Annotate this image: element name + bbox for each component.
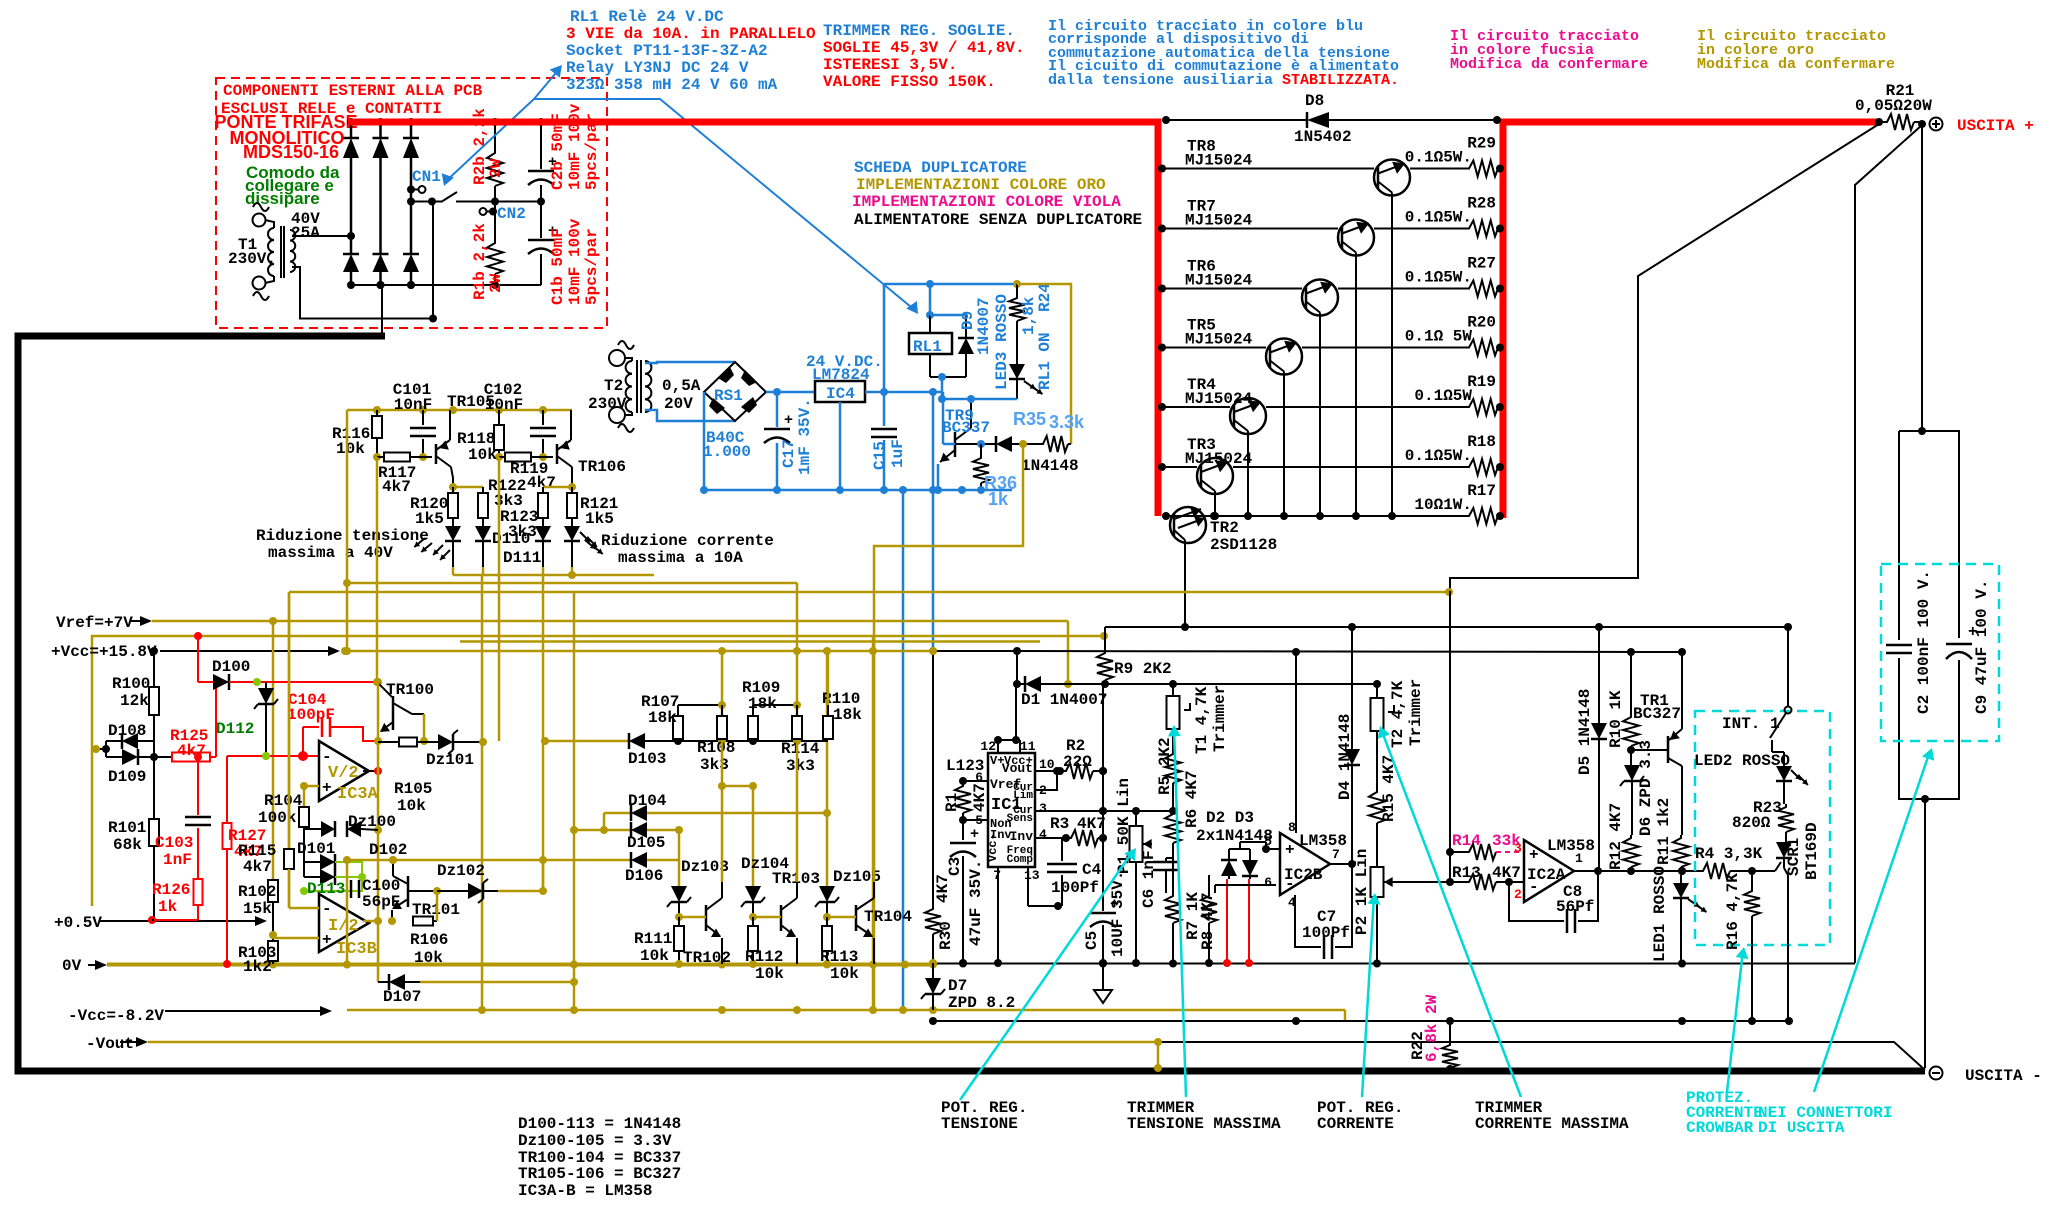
resistor R6 bbox=[1165, 770, 1201, 858]
resistor R1 bbox=[943, 783, 989, 824]
svg-text:Trimmer: Trimmer bbox=[1407, 679, 1425, 746]
diode 1N4148 dup bbox=[996, 436, 1079, 475]
svg-text:D8: D8 bbox=[1305, 92, 1324, 110]
label NEI CONNETTORI DI USCITA bbox=[1758, 1104, 1892, 1137]
diode D101 bbox=[297, 829, 335, 870]
bridge diode top 2 bbox=[373, 118, 389, 254]
svg-text:1nF: 1nF bbox=[163, 851, 192, 869]
svg-text:V/2: V/2 bbox=[328, 764, 359, 783]
svg-text:10k: 10k bbox=[830, 965, 859, 983]
svg-text:D112: D112 bbox=[216, 720, 254, 738]
wire RL1 top bus bbox=[884, 283, 1017, 286]
svg-text:10k: 10k bbox=[640, 947, 669, 965]
diode D9 bbox=[930, 297, 993, 377]
label Vref bbox=[56, 614, 152, 632]
transistor TR2 2SD1128 bbox=[1170, 507, 1277, 627]
resistor R112 bbox=[745, 917, 784, 983]
terminal USCITA+ bbox=[1930, 117, 2034, 135]
svg-text:1k: 1k bbox=[158, 898, 178, 916]
svg-text:Vout: Vout bbox=[1002, 761, 1033, 776]
svg-text:LM7824: LM7824 bbox=[812, 366, 870, 384]
wire -Vcc bus bbox=[347, 1006, 1345, 1021]
opamp IC2A bbox=[1524, 837, 1595, 902]
diode D108 bbox=[106, 722, 154, 749]
zener Dz104 bbox=[718, 782, 789, 921]
resistor R15 bbox=[1369, 731, 1398, 867]
svg-text:IMPLEMENTAZIONI COLORE VIOLA: IMPLEMENTAZIONI COLORE VIOLA bbox=[852, 193, 1121, 211]
label Comodo da collegare e dissipare bbox=[245, 163, 340, 208]
svg-text:Relay LY3NJ DC 24 V: Relay LY3NJ DC 24 V bbox=[566, 59, 749, 77]
resistor R117 bbox=[373, 453, 432, 497]
wire IC3B plus bbox=[273, 937, 319, 940]
wire lower black bus bbox=[929, 1017, 1793, 1025]
svg-text:Comp: Comp bbox=[1007, 854, 1034, 866]
transistor TR102 bbox=[679, 882, 731, 967]
svg-text:Trimmer: Trimmer bbox=[1211, 685, 1229, 752]
trimmer T2 bbox=[1371, 679, 1426, 748]
opamp IC3A bbox=[319, 741, 379, 804]
diode D106 bbox=[543, 830, 679, 885]
resistor R111 bbox=[634, 917, 684, 968]
transistor TR104 bbox=[827, 882, 912, 964]
wire IC1 pin10 bbox=[1035, 767, 1064, 775]
wire R21 sense left bbox=[1450, 124, 1879, 591]
opamp IC3B bbox=[319, 894, 377, 959]
svg-text:+: + bbox=[970, 826, 979, 843]
crowbar dashed box bbox=[1695, 711, 1830, 945]
resistor R30 bbox=[925, 874, 955, 967]
IC1 pin numbers bbox=[975, 739, 1055, 883]
transistor TR101 bbox=[388, 856, 460, 925]
wire IC1 pin3 bbox=[1035, 807, 1177, 815]
resistor R2b bbox=[487, 118, 503, 202]
svg-text:C15: C15 bbox=[871, 441, 889, 470]
trimmer T1 bbox=[1167, 684, 1230, 754]
transistor TR106 BC327 bbox=[557, 410, 626, 491]
label 40V 25A bbox=[291, 210, 320, 242]
resistor R115 bbox=[238, 592, 294, 908]
wire D2D3 top bbox=[1229, 842, 1270, 853]
svg-text:IC3B: IC3B bbox=[336, 940, 377, 959]
label POT REG CORRENTE bbox=[1317, 1099, 1403, 1133]
wire minus input red bbox=[227, 751, 319, 761]
wire gold y641 bus bbox=[460, 640, 1040, 643]
svg-text:RS1: RS1 bbox=[714, 387, 743, 405]
wire bridge bottom bus bbox=[351, 281, 541, 289]
svg-text:1mF 35V.: 1mF 35V. bbox=[796, 398, 814, 475]
diode D100 bbox=[198, 658, 257, 690]
transformer T2 bbox=[609, 341, 651, 432]
label R24 1,8k bbox=[1020, 283, 1054, 335]
svg-text:1N5402: 1N5402 bbox=[1294, 128, 1352, 146]
svg-text:0V: 0V bbox=[62, 957, 82, 975]
label D2 D3 bbox=[1196, 809, 1273, 845]
svg-text:56Pf: 56Pf bbox=[1556, 898, 1594, 916]
svg-text:+: + bbox=[784, 412, 793, 429]
resistor R7 bbox=[1165, 858, 1202, 963]
transistor TR105 BC327 bbox=[436, 410, 457, 491]
label SCHEDA DUPLICATORE bbox=[852, 159, 1142, 229]
svg-text:MJ15024: MJ15024 bbox=[1185, 212, 1253, 230]
resistor R20 bbox=[1405, 314, 1504, 356]
svg-text:P2 1K Lin: P2 1K Lin bbox=[1353, 849, 1371, 935]
transistor TR3 MJ15024 bbox=[1158, 436, 1466, 520]
svg-text:SOGLIE 45,3V / 41,8V.: SOGLIE 45,3V / 41,8V. bbox=[823, 39, 1025, 57]
svg-text:TR106: TR106 bbox=[578, 458, 626, 476]
svg-text:0,05Ω20W: 0,05Ω20W bbox=[1855, 97, 1932, 115]
svg-text:RL1: RL1 bbox=[913, 338, 942, 356]
label T2 secondary bbox=[662, 377, 701, 413]
arrow to P2 bbox=[1362, 893, 1380, 1097]
svg-text:R3: R3 bbox=[1050, 815, 1069, 833]
resistor R16 bbox=[1724, 871, 1760, 1021]
resistor R101 bbox=[108, 757, 159, 920]
label T1 230V bbox=[228, 236, 276, 268]
wire IC1 top pins bbox=[994, 684, 1020, 753]
wire blue verticals down bbox=[884, 284, 937, 1010]
label COMPONENTI ESTERNI bbox=[221, 82, 483, 118]
svg-text:+: + bbox=[1285, 841, 1295, 859]
svg-text:D108: D108 bbox=[108, 722, 146, 740]
svg-text:1k: 1k bbox=[988, 489, 1009, 509]
transformer T1 bbox=[253, 203, 434, 319]
svg-text:18k: 18k bbox=[748, 695, 777, 713]
label R2b 2,2k 2W bbox=[471, 108, 505, 185]
svg-text:-: - bbox=[322, 900, 332, 918]
svg-text:TENSIONE MASSIMA: TENSIONE MASSIMA bbox=[1127, 1115, 1281, 1133]
wire gold R35 down bbox=[874, 444, 1023, 1010]
svg-text:IC4: IC4 bbox=[826, 385, 855, 403]
wire R17 row bbox=[1162, 512, 1466, 520]
wire D7 branch bbox=[929, 647, 937, 906]
svg-text:massima a 40V: massima a 40V bbox=[268, 544, 393, 562]
wire +Vcc black east bbox=[933, 647, 1686, 833]
svg-text:6,8k 2W: 6,8k 2W bbox=[1423, 994, 1441, 1062]
label Il circuito blu bbox=[1048, 18, 1399, 89]
svg-text:10k: 10k bbox=[414, 949, 443, 967]
svg-text:COMPONENTI ESTERNI ALLA PCB: COMPONENTI ESTERNI ALLA PCB bbox=[223, 82, 483, 100]
wire D113 green bbox=[300, 862, 366, 898]
svg-text:R112: R112 bbox=[745, 948, 783, 966]
svg-text:4K7: 4K7 bbox=[934, 874, 952, 903]
wire USCITA+ down bbox=[1921, 125, 1923, 431]
connector CN2 bbox=[480, 205, 526, 223]
label C101 10nF bbox=[393, 381, 432, 414]
svg-text:+0.5V: +0.5V bbox=[54, 914, 102, 932]
svg-text:INT. 1: INT. 1 bbox=[1722, 715, 1780, 733]
capacitor C100 bbox=[351, 877, 400, 911]
wire led bottom bus bbox=[453, 567, 654, 579]
capacitor C15 bbox=[871, 392, 897, 494]
svg-text:R13: R13 bbox=[1452, 864, 1481, 882]
capacitor C3 bbox=[946, 820, 985, 967]
svg-text:0.1Ω5W.: 0.1Ω5W. bbox=[1405, 209, 1472, 227]
svg-text:D100: D100 bbox=[212, 658, 250, 676]
svg-text:1k5: 1k5 bbox=[585, 510, 614, 528]
label Riduzione corrente bbox=[585, 532, 774, 567]
svg-text:8: 8 bbox=[1288, 820, 1296, 835]
wire gold TR105 top bus bbox=[347, 406, 572, 414]
wire duplicator bus bbox=[704, 486, 1012, 494]
svg-text:D1 1N4007: D1 1N4007 bbox=[1021, 691, 1107, 709]
resistor R103 bbox=[238, 902, 278, 976]
capacitor C1b bbox=[528, 202, 557, 286]
wire R9 right vertical bbox=[1099, 684, 1107, 911]
resistor R104 bbox=[258, 786, 309, 829]
svg-text:Vref=+7V: Vref=+7V bbox=[56, 614, 133, 632]
svg-text:D5 1N4148: D5 1N4148 bbox=[1576, 689, 1594, 775]
svg-text:SCHEDA DUPLICATORE: SCHEDA DUPLICATORE bbox=[854, 159, 1027, 177]
svg-text:10k: 10k bbox=[397, 797, 426, 815]
zener pair Dz100 bbox=[304, 813, 396, 837]
svg-text:BC337: BC337 bbox=[942, 419, 990, 437]
svg-text:20V: 20V bbox=[664, 395, 693, 413]
svg-text:D106: D106 bbox=[625, 867, 663, 885]
transistor TR103 bbox=[753, 870, 820, 964]
bridge diode bottom 1 bbox=[343, 254, 359, 289]
svg-text:IC2A: IC2A bbox=[1527, 866, 1566, 884]
svg-text:RL1 Relè 24 V.DC: RL1 Relè 24 V.DC bbox=[570, 8, 724, 26]
wire RS1 plus bbox=[766, 388, 815, 396]
svg-text:Dz101: Dz101 bbox=[426, 751, 474, 769]
wire IC3B minus bbox=[289, 907, 319, 910]
svg-text:4k7: 4k7 bbox=[527, 474, 556, 492]
wire R110 top bbox=[827, 651, 830, 705]
arrow to crowbar box bbox=[1727, 947, 1748, 1092]
label C102 10nF bbox=[484, 381, 523, 414]
transistor TR8 MJ15024 bbox=[1158, 138, 1466, 521]
wire IC1 pin5 bbox=[963, 819, 988, 821]
wire main +V red bus bbox=[348, 122, 1879, 518]
resistor R102 bbox=[238, 880, 278, 918]
resistor R119 bbox=[499, 453, 556, 493]
svg-text:R126: R126 bbox=[152, 881, 190, 899]
svg-text:4: 4 bbox=[1039, 827, 1047, 842]
resistor R107 bbox=[641, 693, 726, 739]
svg-text:3: 3 bbox=[1039, 801, 1047, 816]
svg-text:R106: R106 bbox=[410, 931, 448, 949]
svg-text:T2 4,7K: T2 4,7K bbox=[1389, 680, 1407, 748]
svg-text:47uF 35V.: 47uF 35V. bbox=[967, 860, 985, 946]
arrow to caps box bbox=[1814, 748, 1934, 1092]
resistor R8 bbox=[1199, 875, 1217, 967]
transistor TR7 MJ15024 bbox=[1158, 198, 1466, 521]
resistor R22 bbox=[1409, 994, 1458, 1073]
crowbar caps dashed box bbox=[1881, 564, 1999, 741]
diode D8 bbox=[1162, 92, 1501, 146]
rectifier RS1 bbox=[704, 362, 766, 421]
wire red vertical bbox=[194, 632, 216, 757]
LED2 bbox=[1694, 740, 1808, 804]
svg-text:R113: R113 bbox=[820, 948, 858, 966]
resistor R21 bbox=[1855, 82, 1932, 130]
svg-text:2W: 2W bbox=[487, 273, 505, 293]
zener D6 bbox=[1620, 740, 1655, 836]
svg-text:Modifica da confermare: Modifica da confermare bbox=[1697, 56, 1895, 73]
wire IC1 pin4 bbox=[1035, 834, 1070, 842]
wire TR102 coll gold bbox=[721, 741, 724, 882]
wire collector bus 627 bbox=[1105, 623, 1792, 631]
LED D111 bbox=[564, 526, 597, 567]
svg-text:MJ15024: MJ15024 bbox=[1185, 331, 1253, 349]
diode D105 bbox=[570, 813, 683, 852]
label C1b bbox=[549, 218, 601, 305]
zener Dz101 bbox=[424, 730, 487, 769]
resistor R18 bbox=[1405, 433, 1504, 475]
resistor R121 bbox=[567, 487, 618, 528]
svg-text:IC3A-B = LM358: IC3A-B = LM358 bbox=[518, 1182, 652, 1200]
resistor R118 bbox=[457, 410, 504, 464]
svg-text:10k: 10k bbox=[468, 446, 497, 464]
diode D3 bbox=[1242, 849, 1258, 879]
svg-text:R1: R1 bbox=[943, 793, 961, 812]
diode D104 bbox=[604, 792, 831, 821]
svg-text:5: 5 bbox=[1264, 834, 1272, 849]
svg-text:4K7: 4K7 bbox=[971, 783, 989, 812]
svg-text:D6 ZPD 3.3: D6 ZPD 3.3 bbox=[1637, 740, 1655, 836]
label C15 1uF bbox=[871, 439, 907, 470]
wire +Vcc bus bbox=[341, 647, 937, 655]
svg-text:D7: D7 bbox=[948, 977, 967, 995]
svg-text:LED2 ROSSO: LED2 ROSSO bbox=[1694, 752, 1790, 770]
resistor R125 red bbox=[154, 727, 216, 762]
label Il circuito oro bbox=[1697, 28, 1895, 73]
svg-text:C5: C5 bbox=[1083, 931, 1101, 950]
svg-text:C4: C4 bbox=[1082, 861, 1102, 879]
svg-text:R4 3,3K: R4 3,3K bbox=[1695, 845, 1763, 863]
transistor TR1 BC327 bbox=[1631, 655, 1682, 835]
svg-text:0.1Ω5W: 0.1Ω5W bbox=[1414, 387, 1472, 405]
wire LED3 to TR9 node bbox=[938, 395, 1017, 403]
svg-text:C1b 50mF: C1b 50mF bbox=[549, 228, 567, 305]
label T2 230V bbox=[588, 377, 627, 413]
zener Dz102 bbox=[437, 862, 547, 903]
resistor R106 bbox=[410, 891, 448, 967]
svg-text:C2 100nF 100 V.: C2 100nF 100 V. bbox=[1915, 570, 1933, 714]
wire -sense diagonal bbox=[1158, 1042, 1925, 1070]
ground symbol bbox=[1094, 963, 1112, 1003]
svg-text:100pF: 100pF bbox=[287, 706, 335, 724]
svg-text:100Pf: 100Pf bbox=[1051, 879, 1099, 897]
wire bridge minus drop bbox=[347, 232, 382, 336]
svg-text:RL1 ON: RL1 ON bbox=[1036, 332, 1054, 390]
wire IC1 pin6 bbox=[959, 777, 988, 785]
svg-text:BT169D: BT169D bbox=[1803, 822, 1821, 880]
svg-text:6: 6 bbox=[1264, 875, 1272, 890]
svg-text:+: + bbox=[1529, 846, 1539, 864]
svg-text:1: 1 bbox=[1575, 851, 1583, 866]
wire Dz103 top bbox=[678, 860, 681, 886]
legend component list bbox=[518, 1115, 681, 1200]
diode D4 bbox=[1336, 627, 1360, 864]
svg-text:100Pf: 100Pf bbox=[1302, 924, 1350, 942]
svg-text:323Ω 358 mH 24 V 60 mA: 323Ω 358 mH 24 V 60 mA bbox=[566, 76, 778, 94]
wire IC2B pin5 bbox=[1266, 842, 1280, 849]
capacitor C5 bbox=[1083, 871, 1127, 967]
relay RL1 coil bbox=[909, 280, 966, 399]
svg-text:CN2: CN2 bbox=[497, 205, 526, 223]
resistor R120 bbox=[410, 487, 458, 528]
diode D5 bbox=[1576, 627, 1607, 871]
wire 0V bus gold bbox=[107, 961, 937, 969]
svg-text:1N4007: 1N4007 bbox=[975, 297, 993, 355]
wire IC4 out bbox=[865, 388, 943, 490]
svg-text:R12 4K7: R12 4K7 bbox=[1607, 803, 1625, 870]
wire TR9 base node bbox=[955, 440, 996, 448]
svg-text:MJ15024: MJ15024 bbox=[1185, 390, 1253, 408]
svg-text:10mF 100v: 10mF 100v bbox=[566, 103, 584, 190]
svg-text:R104: R104 bbox=[264, 792, 303, 810]
LED3 bbox=[993, 294, 1042, 399]
resistor R110 bbox=[822, 651, 862, 739]
label 0V bbox=[62, 957, 107, 975]
capacitor C102 bbox=[530, 410, 556, 461]
svg-text:Lim: Lim bbox=[1013, 790, 1033, 802]
resistor R19 bbox=[1414, 373, 1504, 415]
resistor R29 bbox=[1405, 135, 1504, 177]
svg-text:4k7: 4k7 bbox=[382, 478, 411, 496]
label +Vcc bbox=[51, 643, 340, 661]
svg-text:3 VIE da 10A. in PARALLELO: 3 VIE da 10A. in PARALLELO bbox=[566, 25, 816, 43]
svg-text:+Vcc=+15.8V: +Vcc=+15.8V bbox=[51, 643, 157, 661]
svg-text:D109: D109 bbox=[108, 768, 146, 786]
svg-text:10nF: 10nF bbox=[394, 396, 432, 414]
svg-text:R8 4K7: R8 4K7 bbox=[1199, 892, 1217, 950]
capacitor C4 bbox=[1028, 838, 1102, 910]
svg-text:D113: D113 bbox=[307, 880, 345, 898]
svg-text:-Vout: -Vout bbox=[86, 1035, 134, 1053]
svg-text:IC2B: IC2B bbox=[1284, 866, 1323, 884]
svg-text:3k3: 3k3 bbox=[786, 757, 815, 775]
wire C6 bbox=[1166, 858, 1173, 893]
bridge diode bottom 3 bbox=[403, 254, 419, 289]
svg-text:-Vcc=-8.2V: -Vcc=-8.2V bbox=[68, 1007, 164, 1025]
svg-text:IC3A: IC3A bbox=[337, 785, 379, 804]
transistor TR6 MJ15024 bbox=[1158, 258, 1466, 521]
label Riduzione tensione bbox=[256, 527, 432, 562]
capacitor C103 bbox=[155, 753, 211, 879]
svg-text:ZPD 8.2: ZPD 8.2 bbox=[948, 994, 1015, 1012]
wire T2 to RS1 bbox=[645, 362, 735, 421]
transistor TR9 BC337 bbox=[934, 395, 990, 494]
label B40C 1.000 bbox=[703, 429, 751, 461]
svg-text:R105: R105 bbox=[394, 780, 432, 798]
wire TR103 coll gold bbox=[796, 741, 799, 882]
resistor R108 bbox=[697, 705, 735, 774]
zener Dz103 bbox=[667, 858, 729, 921]
svg-text:R16 4,7K: R16 4,7K bbox=[1724, 873, 1742, 950]
transistor TR100 bbox=[374, 678, 434, 745]
wire IC2B feedback C7 bbox=[1295, 864, 1352, 959]
svg-text:Modifica da confermare: Modifica da confermare bbox=[1450, 56, 1648, 73]
wire -Vout bus bbox=[148, 1038, 1162, 1072]
svg-text:BC327: BC327 bbox=[1633, 705, 1681, 723]
resistor R105 bbox=[378, 738, 432, 816]
wire IC4 gnd bbox=[836, 402, 844, 494]
diode D102 bbox=[304, 841, 407, 885]
svg-text:10k: 10k bbox=[755, 965, 784, 983]
resistor R127 red bbox=[223, 756, 267, 968]
arrow to T2 bbox=[1378, 726, 1521, 1097]
svg-text:3: 3 bbox=[1514, 841, 1522, 856]
wire IC2B pin6 bbox=[1215, 885, 1276, 893]
resistor R123 bbox=[500, 487, 548, 541]
svg-text:TR104: TR104 bbox=[864, 908, 912, 926]
label C2b bbox=[549, 103, 601, 190]
svg-text:230V: 230V bbox=[588, 395, 627, 413]
svg-text:0,5A: 0,5A bbox=[662, 377, 701, 395]
bridge diode bottom 2 bbox=[373, 254, 389, 289]
